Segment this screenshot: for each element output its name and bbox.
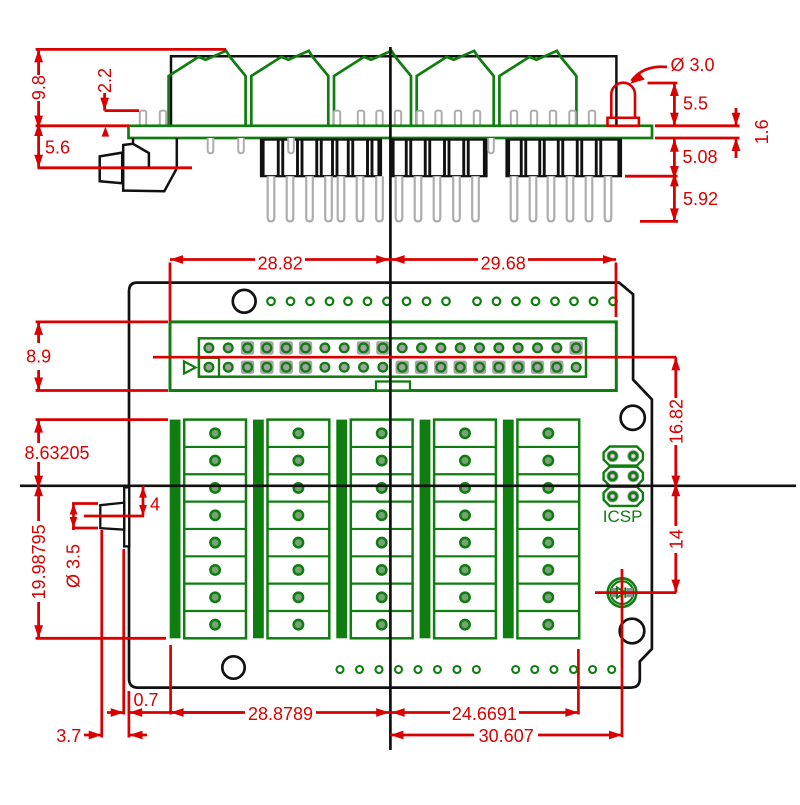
header pad row2 pin6 (299, 361, 312, 374)
screw terminal block T2 side profile (251, 51, 328, 126)
header pad row1 pin7 (319, 342, 330, 353)
dim 9.8 line (37, 49, 40, 75)
header pin below x=570 (567, 176, 574, 221)
header pin below x=456.5 (453, 176, 460, 221)
header post pin above PCB x=572.5 (569, 111, 575, 126)
header pad row2 pin3 (241, 361, 254, 374)
via bottom row x=553.9 (550, 666, 557, 673)
svg-text:Ø 3.5: Ø 3.5 (64, 544, 84, 588)
LED D1 side view flange (608, 118, 639, 126)
vertical centerline (389, 47, 392, 750)
header pin below x=341 (338, 176, 345, 221)
header pad row1 pin13 (435, 342, 446, 353)
header pin below x=360 (357, 176, 364, 221)
header post pin above PCB x=361 (358, 111, 364, 126)
dim extension pins bottom y=221 (640, 220, 678, 223)
svg-text:5.92: 5.92 (683, 189, 718, 209)
short pin below PCB x=491 (488, 138, 494, 153)
svg-text:2.2: 2.2 (95, 68, 115, 93)
terminal column 3 screw dots (377, 429, 386, 438)
terminal column 3 (336, 420, 347, 639)
svg-text:3.7: 3.7 (56, 726, 81, 746)
via top row x=367.5 (364, 298, 372, 306)
via bottom row x=418 (415, 666, 422, 673)
dim extension header bottom y=176 (625, 175, 678, 178)
header pin below x=533 (530, 176, 537, 221)
dim header centerline y=357.2 (153, 356, 676, 359)
header pin below x=475.5 (472, 176, 479, 221)
terminal column 1 (170, 420, 181, 639)
PCB board strip (side view) (129, 126, 653, 138)
LED crosshair horizontal (595, 591, 676, 594)
via bottom row x=573.5 (570, 666, 577, 673)
via top row x=329.5 (326, 298, 334, 306)
via top row x=271 (267, 298, 275, 306)
plug centerline y=516 (84, 515, 144, 518)
svg-text:24.6691: 24.6691 (452, 704, 517, 724)
ICSP header boxes (604, 447, 643, 466)
USB connector side view barrel plug (100, 153, 123, 184)
dim extension line usb centerline y=167.8 (38, 166, 192, 169)
dim ext terminal top y=421 (36, 418, 168, 421)
via bottom row x=359.5 (356, 666, 363, 673)
LED D1 side view dome (611, 83, 635, 118)
svg-text:Ø 3.0: Ø 3.0 (670, 55, 714, 75)
dim extension line pcb top left (36, 124, 129, 127)
header pad row2 pin15 (473, 361, 486, 374)
dim ext terminal bottom y=638 (36, 637, 166, 640)
header pin below x=290 (287, 176, 294, 221)
via top row x=446 (442, 298, 450, 306)
header pad row1 pin9 (357, 341, 370, 354)
ext line x=578.4 bottom (577, 649, 580, 715)
header pad row2 pin7 (319, 362, 330, 373)
USB plug top view (100, 503, 124, 530)
header pin below x=271 (268, 176, 275, 221)
header pin below x=551 (548, 176, 555, 221)
svg-text:8.63205: 8.63205 (24, 443, 89, 463)
header pad row2 pin17 (511, 361, 524, 374)
via bottom row x=592.6 (589, 666, 596, 673)
ext line x=128.9 bottom (128, 691, 131, 738)
header post pin above PCB x=163 (160, 111, 166, 126)
svg-text:19.98795: 19.98795 (29, 524, 49, 599)
svg-text:0.7: 0.7 (133, 690, 158, 710)
terminal column 4 screw dots (460, 429, 469, 438)
dim extension pcb bottom right (655, 137, 740, 140)
svg-text:16.82: 16.82 (666, 399, 686, 444)
header pin below x=608 (605, 176, 612, 221)
via top row x=406.5 (403, 298, 411, 306)
short pin below PCB x=291 (288, 138, 294, 153)
header pin below x=379.5 (376, 176, 383, 221)
header pin below x=418 (415, 176, 422, 221)
header pad row2 pin13 (434, 361, 447, 374)
USB shell edge top view (124, 487, 129, 546)
header pad row1 pin19 (551, 342, 562, 353)
terminal column 2 screw dots (294, 429, 303, 438)
via bottom row x=340 (337, 666, 344, 673)
via bottom row x=611.7 (608, 666, 615, 673)
dim 5.92 line (673, 176, 676, 221)
header pad row1 pin8 (339, 342, 350, 353)
via top row x=613 (609, 298, 617, 306)
terminal column 4 (420, 420, 431, 639)
svg-text:ICSP: ICSP (603, 507, 643, 526)
via top row x=574 (570, 298, 578, 306)
via bottom row x=379 (376, 666, 383, 673)
dim ext line x=616 top (615, 263, 618, 318)
pin header block group 1 side view (261, 140, 381, 177)
svg-text:14: 14 (666, 529, 686, 549)
via bottom row x=398.5 (395, 666, 402, 673)
via top row x=555 (551, 298, 559, 306)
header pin below x=399 (396, 176, 403, 221)
header pad row2 pin11 (396, 361, 409, 374)
header pad row1 pin6 (299, 341, 312, 354)
dim 8.63205 line (37, 420, 40, 443)
dim 16.82 line (674, 357, 677, 398)
terminal column 5 screw dots (544, 429, 553, 438)
svg-text:1.6: 1.6 (752, 119, 772, 144)
dim 5.08 line (673, 138, 676, 176)
header pad row2 pin14 (453, 361, 466, 374)
LED crosshair vertical / 30.607 extension (621, 569, 624, 737)
dim 3.7 arrows (84, 734, 102, 737)
via top row x=535.5 (532, 298, 540, 306)
dim Ø3.5 ticks (72, 502, 98, 505)
via bottom row x=476.4 (473, 666, 480, 673)
via top row x=348 (344, 298, 352, 306)
dim extension pcb top right (655, 124, 740, 127)
screw terminal block T3 side profile (334, 51, 411, 126)
header post pin above PCB x=592 (589, 111, 595, 126)
dim 5.6 line (37, 126, 40, 168)
USB connector side view shell step (123, 144, 149, 168)
header pin below x=328.5 (325, 176, 332, 221)
header pad row2 pin5 (280, 361, 293, 374)
via top row x=496.5 (493, 298, 501, 306)
terminal column 2 (253, 420, 264, 639)
header pad row1 pin5 (280, 341, 293, 354)
header pad row2 pin12 (415, 361, 428, 374)
side view terminal body outline (171, 56, 616, 126)
svg-text:5.5: 5.5 (683, 94, 708, 114)
header pad row1 pin2 (223, 342, 234, 353)
mounting hole top-right (621, 406, 645, 430)
header post pin above PCB x=477 (474, 111, 480, 126)
dim 28.8789 line (171, 711, 245, 714)
via bottom row x=457 (454, 666, 461, 673)
short pin below PCB x=241 (238, 138, 244, 153)
header pad row1 pin1 (203, 342, 214, 353)
pin header block group 2 side view (391, 140, 487, 177)
svg-text:30.607: 30.607 (479, 726, 534, 746)
header pad row2 pin18 (531, 361, 544, 374)
header post pin above PCB x=143 (140, 111, 146, 126)
svg-text:5.08: 5.08 (682, 147, 717, 167)
via bottom row x=534.8 (531, 666, 538, 673)
small tab rect (376, 382, 410, 391)
ext line x=123.7 bottom (122, 549, 125, 715)
dim 28.82 line (170, 258, 255, 261)
header pad row1 pin20 (569, 341, 582, 354)
via top row x=593.5 (590, 298, 598, 306)
LED D1 diode symbol (617, 587, 625, 597)
ext line x=101.75 bottom (100, 530, 103, 738)
header pad row1 pin4 (260, 341, 273, 354)
svg-text:28.82: 28.82 (258, 254, 303, 274)
dim 4 line (142, 486, 145, 516)
LED D1 top view rings (608, 578, 637, 607)
header post pin above PCB x=553 (550, 111, 556, 126)
svg-text:4: 4 (150, 495, 160, 515)
header pin below x=309.5 (306, 176, 313, 221)
dim ext header top y=322 (36, 320, 168, 323)
svg-text:5.6: 5.6 (45, 137, 70, 157)
ICSP header pads (607, 450, 619, 462)
header post pin above PCB x=458 (455, 111, 461, 126)
board outline top view (129, 283, 652, 688)
ext line x=170.6 bottom (169, 645, 172, 715)
header pad row1 pin14 (455, 342, 466, 353)
short pin below PCB x=210.5 (208, 138, 214, 153)
header pad row1 pin17 (513, 342, 524, 353)
LED D1 pads (611, 588, 617, 597)
dim ext line x=170 top (169, 263, 172, 322)
dim 5.5 line (673, 83, 676, 126)
header pad row2 pin8 (339, 362, 350, 373)
pin header block group 3 side view (507, 140, 622, 177)
header pin below x=589 (586, 176, 593, 221)
header pad row1 pin18 (532, 342, 543, 353)
via top row x=310 (306, 298, 314, 306)
header pad row2 pin16 (492, 361, 505, 374)
via top row x=516 (512, 298, 520, 306)
header post pin above PCB x=398 (395, 111, 401, 126)
header pad row1 pin12 (416, 342, 427, 353)
terminal column 5 (503, 420, 514, 639)
USB connector side view shell body (123, 138, 177, 191)
dim 29.68 line (390, 258, 478, 261)
header pad row1 pin10 (376, 341, 389, 354)
pin1 marker box (199, 358, 219, 377)
header pad row2 pin1 (203, 362, 214, 373)
mounting hole bottom-left (222, 656, 244, 678)
dim extension line terminal top y=49.4 (36, 48, 226, 51)
via top row x=387 (383, 298, 391, 306)
header pin below x=437 (434, 176, 441, 221)
svg-text:29.68: 29.68 (481, 254, 526, 274)
header connector box (199, 338, 586, 376)
dim 14 line (674, 486, 677, 526)
dim Ø3.0 leader arrow (632, 67, 668, 81)
screw terminal block T1 side profile (169, 51, 246, 126)
dim 24.6691 line (390, 711, 450, 714)
header pad row2 pin2 (223, 362, 234, 373)
dim 30.607 line (390, 734, 474, 737)
header pad row2 pin10 (377, 362, 388, 373)
header post pin above PCB x=420 (417, 111, 423, 126)
mounting hole bottom-right (620, 619, 645, 644)
header pad row2 pin9 (358, 362, 369, 373)
screw terminal block T5 side profile (499, 51, 576, 126)
via top row x=290.5 (287, 298, 295, 306)
header post pin above PCB x=438.5 (435, 111, 441, 126)
dim 19.98795 line (37, 486, 40, 521)
svg-text:28.8789: 28.8789 (248, 704, 313, 724)
header pad row1 pin16 (493, 342, 504, 353)
dim 2.2 extension (105, 109, 139, 112)
header pad row1 pin15 (474, 342, 485, 353)
dim 0.7 arrows (107, 711, 124, 714)
screw terminal block T4 side profile (417, 51, 494, 126)
header pad row1 pin11 (397, 342, 408, 353)
header post pin above PCB x=534 (531, 111, 537, 126)
header post pin above PCB x=514 (511, 111, 517, 126)
horizontal centerline (20, 484, 796, 487)
header pad row2 pin4 (260, 361, 273, 374)
svg-text:8.9: 8.9 (26, 347, 51, 367)
via bottom row x=515.7 (512, 666, 519, 673)
dim extension line LED top y=83 (648, 82, 678, 85)
dim Ø3.5 arrows (72, 504, 75, 531)
mounting hole top-left (233, 290, 256, 313)
via top row x=477 (473, 298, 481, 306)
dim 1.6 arrows (735, 108, 738, 126)
dim 8.9 line (37, 322, 40, 343)
header post pin above PCB x=337 (334, 111, 340, 126)
via top row x=426.5 (423, 298, 431, 306)
dim ext header bottom y=390.5 (36, 389, 168, 392)
terminal column 1 screw dots (210, 429, 219, 438)
header pad row2 pin20 (571, 362, 582, 373)
svg-text:9.8: 9.8 (29, 75, 49, 100)
via bottom row x=437.5 (434, 666, 441, 673)
dim 2.2 arrows (103, 93, 106, 111)
header pin below x=514 (511, 176, 518, 221)
header post pin above PCB x=379.5 (376, 111, 382, 126)
pin1 triangle (184, 361, 196, 373)
header pad row2 pin19 (550, 361, 563, 374)
header region outline (170, 322, 616, 391)
header pad row1 pin3 (241, 341, 254, 354)
